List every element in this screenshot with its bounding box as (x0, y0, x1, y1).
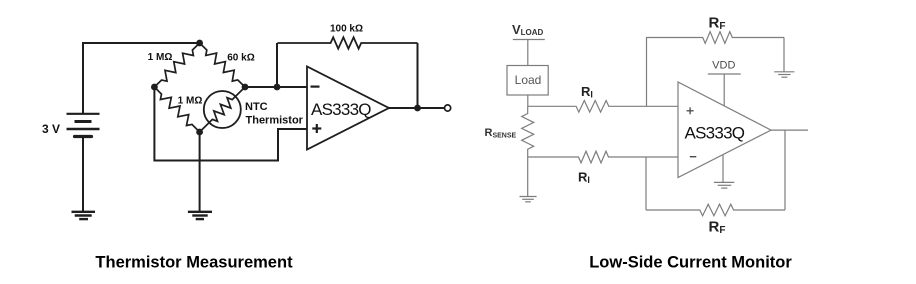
junction right bridge node (242, 84, 249, 91)
wire VLOAD to Load box (527, 40, 529, 66)
resistor R4 100 kOhm feedback (277, 37, 417, 48)
junction left bridge node (151, 84, 158, 91)
ground bridge (188, 212, 212, 219)
wire output (389, 107, 445, 109)
junction output / feedback (414, 105, 421, 112)
resistor R2 60 kOhm (bridge top-right) (200, 43, 245, 87)
resistor RF top (646, 32, 784, 44)
op-amp U2 triangle (678, 82, 771, 178)
svg-text:Thermistor Measurement: Thermistor Measurement (95, 254, 293, 272)
wire VDD to op-amp (723, 74, 725, 106)
terminal VDD bar (708, 73, 741, 75)
output terminal circle (445, 105, 451, 111)
svg-text:AS333Q: AS333Q (311, 100, 371, 119)
svg-text:Low-Side Current Monitor: Low-Side Current Monitor (589, 254, 792, 272)
terminal VLOAD bar (513, 39, 545, 41)
svg-text:60 kΩ: 60 kΩ (227, 53, 254, 64)
wire feedback node up to 100k (276, 43, 278, 87)
svg-text:100 kΩ: 100 kΩ (330, 23, 363, 34)
wire sense node to ground (527, 157, 529, 196)
ground below RSENSE (520, 197, 537, 202)
wire RF bottom up to output (784, 130, 786, 210)
wire op-amp to ground (722, 155, 724, 182)
wire battery top to bridge top (83, 43, 200, 114)
op-amp U1 inverting pin minus (311, 85, 320, 87)
resistor RF bottom (646, 204, 785, 216)
svg-text:1 MΩ: 1 MΩ (148, 52, 173, 63)
load block (507, 66, 548, 96)
op-amp U1 triangle (307, 67, 389, 150)
thermistor RT NTC circle (204, 91, 241, 128)
wire Load box to sense node (527, 95, 529, 106)
junction top bridge node (196, 40, 203, 47)
op-amp U2 inverting pin minus (690, 156, 697, 158)
resistor RSENSE (522, 106, 534, 157)
wire RF top down to ground (783, 38, 785, 72)
wire left bridge node down and along bottom to non-inverting input (154, 87, 307, 161)
battery B1 3V (67, 114, 100, 137)
resistor R1 1 MOhm (bridge top-left) (154, 43, 199, 87)
ground battery (72, 212, 96, 219)
ground RF top (774, 72, 794, 77)
svg-text:1 MΩ: 1 MΩ (178, 96, 203, 107)
wire non-inverting node up to RF top (646, 38, 648, 107)
svg-text:VDD: VDD (712, 60, 735, 72)
wire inverting node down to RF bottom (645, 157, 647, 210)
junction feedback / inverting input (274, 84, 281, 91)
wire feedback down to output node (417, 43, 419, 108)
op-amp U1 non-inverting pin plus (312, 124, 321, 133)
svg-text:Thermistor: Thermistor (246, 115, 304, 127)
wire bridge bottom node to ground (199, 132, 201, 212)
resistor R3 1 MOhm (bridge bottom-left) (154, 87, 199, 132)
wire right bridge node to inverting input (245, 86, 307, 88)
ground op-amp (714, 182, 734, 188)
resistor RI lower (to inverting input) (528, 151, 678, 163)
junction bottom bridge node (196, 129, 203, 136)
thermistor RT NTC zigzag element (200, 87, 245, 132)
svg-text:AS333Q: AS333Q (685, 124, 745, 143)
op-amp U2 non-inverting pin plus (687, 107, 694, 114)
svg-text:3 V: 3 V (42, 122, 60, 136)
wire output (771, 129, 808, 131)
resistor RI upper (to non-inverting input) (528, 101, 678, 113)
svg-text:Load: Load (515, 73, 542, 87)
wire battery bottom to ground (82, 138, 84, 212)
svg-text:NTC: NTC (245, 101, 268, 113)
